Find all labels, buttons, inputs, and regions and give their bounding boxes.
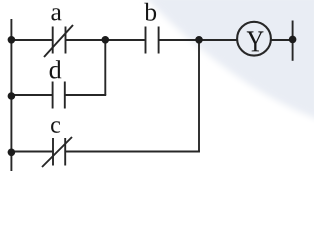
wire: left rail to contact a xyxy=(11,39,52,41)
wire: coil Y to right rail xyxy=(271,39,293,41)
right power rail xyxy=(292,21,294,61)
left power rail xyxy=(10,19,12,171)
contact a (NC) bars xyxy=(44,25,73,57)
label c (contact c) xyxy=(51,121,60,133)
wire: contact b to node after b xyxy=(159,39,199,41)
wire: vertical branch from node after b down to c rung xyxy=(198,40,200,152)
label d (contact d) xyxy=(50,60,62,78)
node B: junction after contact b xyxy=(195,36,203,44)
node A: junction after contact a xyxy=(102,36,110,44)
contact a slash xyxy=(44,25,73,57)
wire: contact d to vertical branch xyxy=(65,94,106,96)
coil label Y xyxy=(247,31,264,51)
wire: c rung from left rail to contact c xyxy=(11,151,52,153)
wire: node after a to contact b xyxy=(105,39,145,41)
label a (contact a) xyxy=(51,8,61,20)
wire: contact c to right vertical branch xyxy=(66,151,200,153)
wire: contact a to node after a xyxy=(66,39,105,41)
node: left rail / rung a junction xyxy=(8,36,16,44)
wire: vertical branch from node after a down to d rung xyxy=(104,40,106,95)
op coil Y circle xyxy=(237,22,271,56)
contact d (NO) bars xyxy=(53,82,65,109)
wire: node after b to coil Y xyxy=(199,39,238,41)
contact c slash xyxy=(42,137,72,167)
node: right rail junction xyxy=(289,36,297,44)
decorative swoosh xyxy=(142,0,320,120)
node: left rail / rung d junction xyxy=(8,92,16,100)
contact b (NO) bars xyxy=(146,27,159,54)
contact c (NC) bars xyxy=(42,137,72,167)
node: left rail / rung c junction xyxy=(8,149,16,157)
wire: d rung from left rail to contact d xyxy=(11,94,52,96)
label b (contact b) xyxy=(144,3,156,21)
